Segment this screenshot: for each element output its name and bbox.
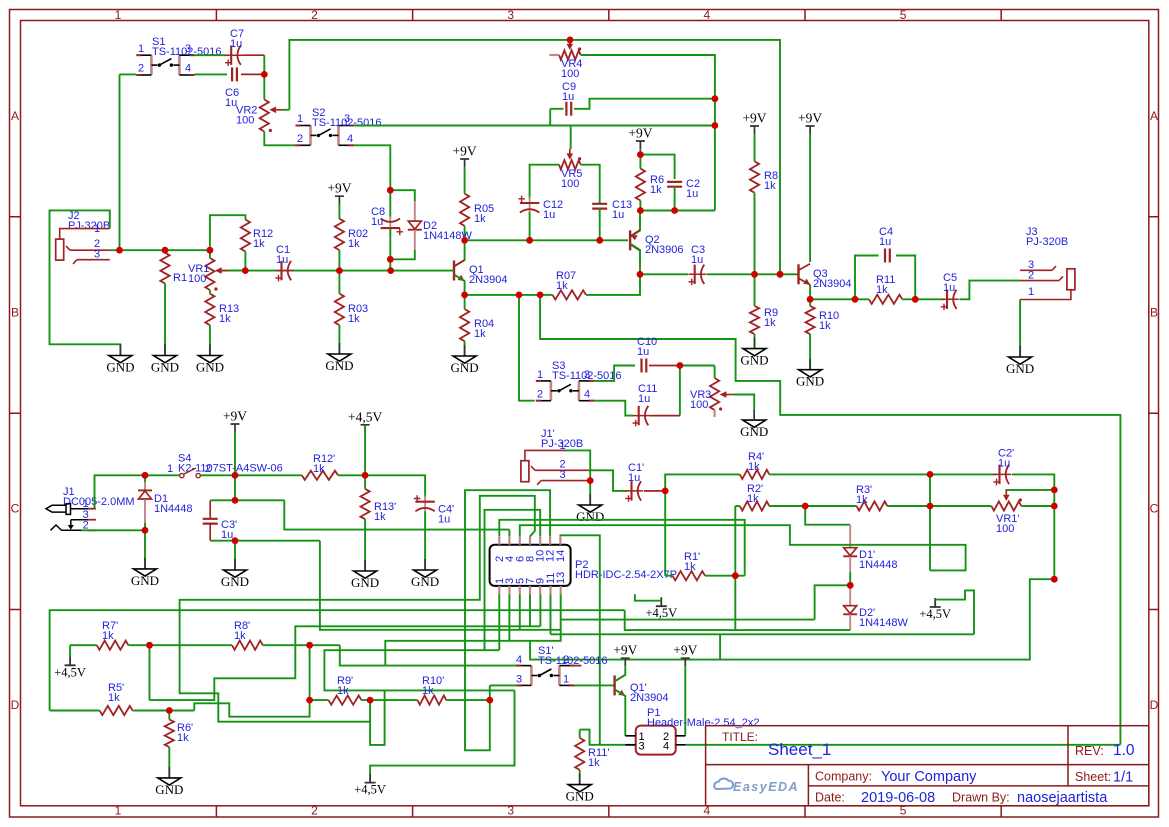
wire R13' to GND: [364, 519, 366, 571]
wire C3' bottom rail east: [320, 541, 561, 630]
wire R6/C2 bottom rail: [640, 210, 715, 212]
svg-text:5: 5: [900, 8, 907, 22]
wire C9 left lead: [550, 108, 563, 110]
wire R10 to GND: [809, 334, 811, 370]
junction C8/D2 top: [387, 187, 394, 194]
wire C8 top lead: [389, 190, 391, 218]
svg-text:+4,5V: +4,5V: [54, 665, 86, 679]
svg-text:100: 100: [690, 399, 708, 411]
wire to D1: [144, 475, 146, 482]
lead D2 top: [414, 201, 416, 221]
wire VR1 top lead: [209, 250, 211, 258]
ground R1: [164, 345, 166, 356]
wire to R9': [310, 699, 329, 701]
wire C10 right: [649, 365, 680, 367]
resistor R03: [335, 294, 344, 326]
wire P1.4 east to title loop: [686, 744, 1121, 746]
svg-text:Sheet:: Sheet:: [1075, 770, 1111, 784]
svg-text:3: 3: [584, 369, 590, 381]
junction R9' east: [367, 697, 374, 704]
svg-text:1k: 1k: [556, 280, 568, 292]
power +4,5V R7': [65, 656, 76, 665]
wire R8' junction down to R9' rail: [309, 645, 311, 700]
potentiometer VR1: [205, 258, 214, 290]
svg-text:4: 4: [347, 133, 353, 145]
wire R1 to GND: [164, 284, 166, 356]
wire C5 to J3.2: [960, 281, 1021, 300]
wire to R10: [809, 299, 811, 306]
svg-text:1u: 1u: [691, 254, 703, 266]
wire to VR1' wiper: [1006, 489, 1054, 492]
capacitor C7: [225, 54, 243, 56]
wire R5' east: [133, 710, 195, 712]
junction pin13 net column: [1051, 576, 1058, 583]
wire R7' left: [70, 644, 97, 646]
resistor R5': [100, 706, 133, 715]
junction C10 branch: [537, 292, 544, 299]
junction C13 bottom: [596, 237, 603, 244]
wire D1' net east: [561, 619, 815, 621]
junction top-rail column: [777, 271, 784, 278]
wire C3' bottom lead: [209, 524, 211, 541]
svg-text:2: 2: [537, 389, 543, 401]
diode D1 1N4448: [138, 489, 152, 491]
wire D1' net west: [815, 585, 851, 619]
power +4,5V bottom: [365, 774, 376, 783]
wire P2 pin13 net: [385, 594, 560, 665]
svg-text:1: 1: [563, 674, 569, 686]
wire C1' right: [644, 490, 665, 492]
wire S1'.3 down to R10': [489, 685, 491, 700]
svg-text:2: 2: [1028, 270, 1034, 282]
capacitor C3: [689, 273, 707, 275]
wire R8' east: [263, 644, 340, 646]
svg-text:2: 2: [311, 8, 318, 22]
wire to R13': [364, 475, 366, 489]
wire J1.2 rail: [81, 529, 145, 531]
junction Q3 emitter: [807, 296, 814, 303]
capacitor C8: [389, 216, 391, 234]
wire R13 to GND: [209, 325, 211, 355]
lead D2 bottom: [414, 230, 416, 250]
wire P2 pin7 down to pin9 line: [529, 594, 531, 626]
ground J1: [144, 558, 146, 569]
svg-text:1u: 1u: [879, 236, 891, 248]
switch S3 body: [551, 381, 579, 401]
wire C4' to GND: [424, 512, 426, 571]
svg-text:GND: GND: [106, 360, 134, 375]
switch S1' body: [531, 666, 559, 686]
wire Q1' collector to +9V: [615, 666, 626, 681]
svg-text:GND: GND: [325, 358, 353, 373]
wire +9V to R8: [754, 134, 756, 161]
svg-text:+9V: +9V: [798, 111, 822, 126]
S1' pin2 tail: [574, 665, 581, 667]
wire R6 bottom: [639, 201, 641, 211]
wire R04 to GND: [464, 341, 466, 356]
wire C3' top rail: [210, 499, 284, 501]
svg-text:C: C: [11, 502, 20, 516]
svg-text:HDR-IDC-2.54-2X7P: HDR-IDC-2.54-2X7P: [575, 569, 677, 581]
svg-text:1u: 1u: [562, 91, 574, 103]
capacitor C13: [592, 204, 607, 209]
wire pin9 net via R7' branch: [150, 626, 541, 700]
wire +9V to R6 node: [639, 149, 641, 155]
wire R02 bottom: [338, 250, 340, 271]
title block: [706, 726, 1149, 806]
wire R1' right to pin2 column: [705, 575, 745, 577]
resistor R10': [417, 696, 446, 705]
junction R1'/R2'/D2' rail: [732, 572, 739, 579]
svg-text:+4,5V: +4,5V: [919, 607, 951, 621]
wire R3' to VR1': [887, 505, 991, 507]
svg-text:1u: 1u: [638, 393, 650, 405]
ground R9: [754, 338, 756, 349]
wire C7 right: [243, 54, 264, 56]
junction R6 bottom: [637, 207, 644, 214]
ground J2: [119, 345, 121, 356]
wire junction to VR2: [263, 74, 265, 99]
wire R07 right up to Q2 collector: [586, 274, 640, 295]
ground J3: [1019, 346, 1021, 357]
svg-text:2: 2: [138, 63, 144, 75]
svg-text:4: 4: [516, 654, 522, 666]
junction Q1 emitter: [461, 292, 468, 299]
wire P2 pin8 net loop: [180, 496, 535, 722]
svg-text:1u: 1u: [438, 514, 450, 526]
resistor R6: [636, 169, 645, 201]
resistor R4': [740, 470, 770, 479]
svg-text:1u: 1u: [276, 254, 288, 266]
capacitor C2: [667, 182, 682, 187]
svg-text:1k: 1k: [819, 320, 831, 332]
svg-text:1/1: 1/1: [1113, 770, 1133, 786]
svg-text:2: 2: [311, 804, 318, 818]
junction +9V / C3' top: [232, 497, 239, 504]
capacitor C10: [642, 359, 647, 373]
svg-text:1: 1: [138, 43, 144, 55]
svg-text:GND: GND: [196, 360, 224, 375]
svg-text:1k: 1k: [764, 317, 776, 329]
wire D1' bottom: [849, 572, 851, 585]
svg-text:1k: 1k: [748, 461, 760, 473]
resistor R12': [302, 471, 338, 480]
wire to C3' top rail: [234, 475, 236, 500]
svg-text:Your Company: Your Company: [881, 769, 977, 785]
wire +4,5V staircase: [935, 590, 974, 634]
wire R9 to GND: [754, 334, 756, 349]
wire R7' to R8': [128, 644, 232, 646]
junction R12 bottom: [242, 267, 249, 274]
svg-text:GND: GND: [221, 574, 249, 589]
junction C8/D2 bottom: [387, 256, 394, 263]
wire S3.4 to C11: [594, 401, 633, 416]
svg-text:1u: 1u: [221, 529, 233, 541]
wire emitter rail to S3.2: [519, 295, 535, 401]
svg-text:Date:: Date:: [815, 791, 845, 805]
svg-text:R1: R1: [173, 272, 187, 284]
wire J1.1 to S4: [95, 475, 180, 508]
resistor R2': [740, 501, 770, 510]
resistor R6': [165, 719, 174, 747]
potentiometer VR2: [260, 100, 269, 132]
svg-text:4: 4: [185, 63, 191, 75]
svg-text:A: A: [1150, 109, 1158, 123]
svg-text:1.0: 1.0: [1113, 742, 1135, 759]
junction R10'/S1'.3: [486, 697, 493, 704]
svg-text:1N4148W: 1N4148W: [859, 617, 909, 629]
capacitor C1: [275, 270, 293, 272]
svg-text:Company:: Company:: [815, 770, 872, 784]
svg-text:3: 3: [344, 113, 350, 125]
wire C7 to C6 node: [263, 55, 265, 74]
lead D2' bottom: [849, 614, 851, 630]
svg-text:GND: GND: [351, 575, 379, 590]
svg-text:1u: 1u: [543, 209, 555, 221]
svg-text:100: 100: [996, 523, 1014, 535]
svg-text:1k: 1k: [876, 284, 888, 296]
svg-text:13: 13: [555, 572, 567, 584]
svg-text:A: A: [11, 109, 19, 123]
resistor R1': [673, 571, 706, 580]
wire +4,5V to R7': [69, 645, 71, 656]
svg-text:1k: 1k: [764, 180, 776, 192]
svg-text:+4,5V: +4,5V: [354, 783, 386, 797]
ground R11': [579, 774, 581, 785]
junction GND / C3' bottom: [232, 537, 239, 544]
wire S3.3 to C10: [594, 366, 635, 381]
svg-text:1k: 1k: [650, 184, 662, 196]
junction Q3 base rail: [777, 271, 784, 278]
svg-text:1u: 1u: [686, 188, 698, 200]
svg-text:2N3904: 2N3904: [630, 692, 669, 704]
switch S1 body: [151, 55, 179, 75]
wire to GND: [234, 541, 236, 570]
svg-text:1: 1: [115, 8, 122, 22]
svg-text:Drawn By:: Drawn By:: [952, 791, 1010, 805]
svg-text:1k: 1k: [856, 494, 868, 506]
svg-text:1k: 1k: [234, 630, 246, 642]
ground R03: [338, 343, 340, 354]
wire VR5 left to C12: [530, 165, 559, 199]
wire R12 bottom: [244, 252, 246, 271]
wire J1 pin1 line: [71, 508, 89, 510]
capacitor C9: [566, 102, 571, 116]
wire S1'.1 to Q1' base: [574, 684, 614, 686]
wire P2 pin5 down to C3' rail: [519, 594, 521, 630]
wire down to D2' rail: [734, 576, 736, 630]
svg-text:1: 1: [94, 223, 100, 235]
wire C9 left down: [549, 109, 551, 126]
capacitor C4: [885, 249, 890, 263]
ground R13: [209, 345, 211, 356]
svg-text:1k: 1k: [747, 493, 759, 505]
wire R5' net long rail: [50, 610, 625, 710]
junction R7'/R8' branch: [146, 642, 153, 649]
svg-text:1k: 1k: [313, 463, 325, 475]
junction wiper feed: [1051, 487, 1058, 494]
resistor R12: [241, 220, 250, 252]
junction J1.2/D1: [142, 527, 149, 534]
ground C3': [234, 559, 236, 570]
svg-text:1u: 1u: [371, 216, 383, 228]
wire to R6: [639, 155, 641, 169]
EasyEDA logo: [714, 779, 733, 789]
junction C9 right: [712, 95, 719, 102]
stub VR3 bottom: [713, 410, 715, 417]
svg-text:1k: 1k: [219, 313, 231, 325]
wire R1' left lead: [665, 575, 672, 577]
wire R10' east: [446, 699, 490, 701]
wire pin13 branch to VR1' column: [530, 579, 1054, 659]
potentiometer VR4: [559, 50, 581, 59]
svg-text:2: 2: [205, 463, 211, 475]
wire J3.1 to GND: [1019, 300, 1021, 358]
svg-text:1u: 1u: [628, 472, 640, 484]
wire base rail R05-C12-C13-Q2: [465, 239, 628, 241]
svg-text:+9V: +9V: [628, 126, 652, 141]
wire VR4 wiper stub: [569, 40, 571, 46]
wire C1' to R4': [665, 474, 740, 491]
jack J2 PJ-320B sleeve: [56, 239, 64, 260]
wire +9V to R05: [464, 167, 466, 194]
junction D1 top: [142, 472, 149, 479]
connector P1 Header-Male-2.54_2x2: [636, 726, 676, 755]
resistor R9: [750, 306, 759, 334]
junction J1'.3: [587, 477, 594, 484]
svg-text:1: 1: [1028, 286, 1034, 298]
wire to R03: [338, 271, 340, 294]
wire C13 bottom: [599, 209, 601, 241]
svg-text:1k: 1k: [474, 328, 486, 340]
lead D1' bottom: [849, 556, 851, 572]
wire VR1' right: [1021, 505, 1054, 507]
svg-text:2: 2: [297, 133, 303, 145]
svg-text:2N3904: 2N3904: [469, 274, 508, 286]
wire R11' top jog v: [579, 730, 581, 738]
wire C10 to VR3: [680, 365, 715, 367]
wire P2 pin10 net: [324, 510, 540, 691]
svg-text:1: 1: [115, 804, 122, 818]
capacitor C6: [232, 67, 237, 81]
jack J2 pin lines: [60, 229, 110, 240]
svg-text:PJ-320B: PJ-320B: [68, 220, 110, 232]
junction R8'/R9' column: [306, 642, 313, 649]
wire R8' to S1'.4: [340, 645, 517, 665]
svg-text:+4,5V: +4,5V: [348, 409, 382, 424]
wire S1.2 down to J2 net: [119, 74, 121, 250]
wire R11 to C5: [902, 298, 944, 300]
svg-text:+9V: +9V: [613, 643, 637, 658]
junction R6' top: [166, 707, 173, 714]
wire P2 pin1 down: [498, 594, 500, 650]
wire S1.4 to C6: [194, 73, 227, 75]
wire C2 bottom: [674, 187, 676, 211]
svg-text:1: 1: [297, 113, 303, 125]
junction C12 bottom: [526, 237, 533, 244]
wire VR5 wiper: [570, 126, 572, 150]
wire C8 bottom: [389, 228, 391, 259]
lead D2' top: [849, 585, 851, 605]
wire R07 left lead: [539, 294, 553, 296]
junction C8 branch: [387, 267, 394, 274]
transistor Q1' 2N3904: [613, 675, 615, 695]
ground J1': [589, 494, 591, 505]
svg-text:100: 100: [561, 68, 579, 80]
wire D2 bottom to C8: [390, 250, 415, 259]
wire VR2 bottom to S2.2: [264, 132, 295, 146]
wire C3' bottom rail: [210, 540, 320, 542]
wire Q1 emitter down: [454, 275, 465, 295]
junction Q2 collector / C3: [637, 271, 644, 278]
wire R05 bottom: [464, 226, 466, 240]
diode D1' 1N4448: [844, 548, 857, 556]
junction R05 bottom: [461, 237, 468, 244]
svg-text:14: 14: [555, 550, 567, 562]
svg-text:1u: 1u: [998, 458, 1010, 470]
wire VR1 top to R12 top: [210, 215, 246, 250]
svg-text:3: 3: [560, 469, 566, 481]
wire pin6 net column: [929, 474, 931, 570]
wire P2 pin11 east to +4,5V: [551, 633, 975, 635]
wire R11' jog to P1.3: [580, 730, 636, 745]
wire to GND: [589, 481, 591, 505]
svg-text:3: 3: [638, 741, 644, 753]
svg-text:1k: 1k: [102, 630, 114, 642]
wire +9V to R02: [338, 204, 340, 219]
wire VR1 wiper to C1 rail: [229, 270, 245, 272]
svg-text:C: C: [1150, 502, 1159, 516]
capacitor C2': [993, 473, 1011, 475]
wire VR2 wiper to top rail to Q3 base: [289, 40, 780, 274]
svg-text:3: 3: [94, 249, 100, 261]
svg-text:+4,5V: +4,5V: [645, 606, 677, 620]
wire +4,5V P2 jog: [635, 594, 661, 600]
svg-text:1k: 1k: [374, 511, 386, 523]
wire S2.3 east rail: [354, 125, 551, 127]
svg-text:+9V: +9V: [223, 409, 247, 424]
lead D1 top: [144, 482, 146, 490]
potentiometer VR5: [559, 160, 581, 169]
junction C4 left: [852, 296, 859, 303]
junction VR1' right: [1051, 503, 1058, 510]
svg-text:Header-Male-2.54_2x2: Header-Male-2.54_2x2: [647, 717, 760, 729]
resistor R7': [97, 641, 129, 650]
svg-text:B: B: [11, 306, 19, 320]
wire P2 pin6 net: [520, 525, 966, 570]
wire R9' to R10': [361, 699, 417, 701]
ground R6': [168, 767, 170, 778]
junction S1.2 column: [116, 247, 123, 254]
svg-text:+9V: +9V: [327, 181, 351, 196]
wire C9 right to vertical: [574, 99, 715, 109]
wire to base rail: [389, 259, 391, 270]
svg-text:2: 2: [563, 654, 569, 666]
capacitor C3': [203, 519, 218, 524]
wire P2 pin4 stub up: [508, 530, 510, 537]
wire Q1' emitter to P1.1: [615, 690, 626, 736]
wire D2' bottom rail: [625, 610, 851, 630]
wire rail to R9: [754, 274, 756, 306]
svg-text:100: 100: [561, 178, 579, 190]
svg-text:4: 4: [584, 389, 590, 401]
resistor R13: [205, 294, 214, 326]
wire pin11 branch down to long rail: [719, 634, 721, 659]
resistor R8': [232, 641, 263, 650]
ground R13': [364, 560, 366, 571]
junction D1'/D2': [847, 582, 854, 589]
svg-text:1k: 1k: [474, 213, 486, 225]
